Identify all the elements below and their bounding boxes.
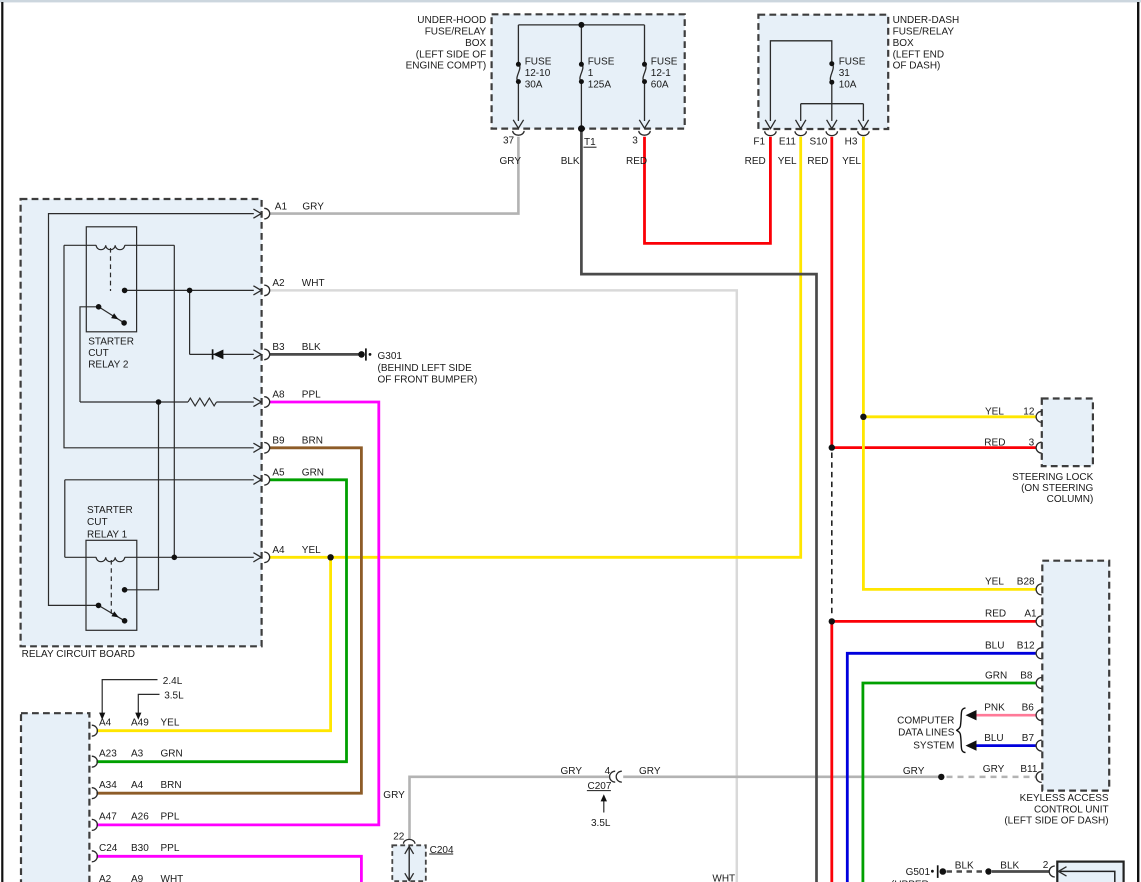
svg-text:A34: A34: [99, 780, 117, 791]
C204 arrow up: [405, 846, 414, 854]
svg-text:A47: A47: [99, 812, 117, 823]
pin B3 arrow: [253, 350, 261, 359]
svg-text:RED: RED: [745, 156, 766, 167]
wire bus drop to exit H3: [862, 104, 864, 121]
svg-text:31: 31: [839, 68, 851, 79]
svg-text:A3: A3: [131, 749, 144, 760]
wire resistor to A8 pin: [217, 401, 254, 403]
svg-text:(LEFT SIDE OF: (LEFT SIDE OF: [416, 49, 486, 60]
pin B9 arc: [264, 443, 270, 454]
svg-text:BOX: BOX: [893, 38, 914, 49]
svg-text:A2: A2: [272, 278, 285, 289]
wire A5 leg down to relay 1 coil: [64, 480, 66, 558]
wire fuse 1 to terminal T1: [580, 82, 582, 129]
pin 12 steering arc: [1036, 411, 1042, 422]
svg-text:A4: A4: [272, 545, 285, 556]
wire PPL A8 down to A47/A26: [96, 402, 378, 825]
svg-text:FUSE: FUSE: [651, 57, 678, 68]
brace computer data lines: [957, 708, 966, 753]
svg-text:BLU: BLU: [984, 733, 1003, 744]
svg-text:FUSE: FUSE: [525, 57, 552, 68]
svg-text:12-10: 12-10: [525, 68, 551, 79]
label steering lock: [1012, 472, 1093, 505]
pin 3 cavity arc: [639, 131, 650, 135]
svg-text:A2: A2: [99, 874, 112, 882]
fuse 1 end dots: [579, 62, 584, 67]
pin A5 arrow: [253, 475, 261, 484]
pin F1 cavity arc: [765, 131, 776, 135]
arrowhead computer data lines B6: [966, 710, 977, 720]
pin A1 arrow: [253, 209, 261, 218]
diode in B3 line: [212, 349, 214, 359]
relay 1 coil link dashed: [110, 560, 112, 617]
svg-text:A1: A1: [1024, 608, 1037, 619]
svg-text:2.4L: 2.4L: [163, 676, 183, 687]
relay 2 pivot dot: [96, 304, 102, 310]
wire YEL branch down to A4/A49 pin: [96, 557, 330, 730]
svg-text:UNDER-HOOD: UNDER-HOOD: [417, 15, 486, 26]
svg-text:F1: F1: [753, 136, 765, 147]
svg-text:WHT: WHT: [712, 873, 735, 882]
wire BLK dashed from G501: [947, 870, 986, 873]
svg-text:GRN: GRN: [161, 749, 183, 760]
svg-text:B28: B28: [1017, 577, 1035, 588]
svg-text:COLUMN): COLUMN): [1047, 494, 1094, 505]
svg-text:RELAY 1: RELAY 1: [87, 529, 128, 540]
wire RED S10 down to steering lock branch: [832, 137, 1036, 448]
svg-text:3.5L: 3.5L: [164, 691, 184, 702]
ground G501: [931, 870, 934, 873]
pin B12 arc: [1036, 648, 1042, 659]
svg-text:(ON STEERING: (ON STEERING: [1021, 483, 1093, 494]
pin B6 arc: [1036, 710, 1042, 721]
svg-text:PNK: PNK: [984, 702, 1005, 713]
pin A2 arrow: [253, 286, 261, 295]
svg-text:RED: RED: [807, 156, 828, 167]
wire bus drop to fuse 1: [580, 25, 582, 64]
svg-text:BLK: BLK: [1000, 860, 1019, 871]
pin C24/B30 arc: [92, 851, 98, 862]
svg-text:UNDER-DASH: UNDER-DASH: [893, 15, 960, 26]
steering lock box: [1042, 399, 1093, 467]
fuse 12-10 30A: [517, 64, 520, 81]
svg-text:FUSE: FUSE: [839, 57, 866, 68]
connector C204 box: [392, 845, 426, 881]
svg-text:OF DASH): OF DASH): [893, 61, 941, 72]
svg-text:4: 4: [605, 766, 611, 777]
wire C204 pass-through: [408, 846, 410, 880]
svg-text:T1: T1: [584, 137, 596, 148]
pin A34/A4 arc: [92, 788, 98, 799]
svg-text:GRN: GRN: [302, 468, 324, 479]
wire RED A1 row to keyless unit: [832, 620, 1036, 623]
wire A8 row left: [80, 401, 188, 403]
node A8 junction: [156, 399, 162, 405]
svg-text:A26: A26: [131, 812, 149, 823]
pin B7 arc: [1036, 740, 1042, 751]
svg-text:YEL: YEL: [302, 545, 321, 556]
wire relay 2 coil row: [64, 244, 96, 246]
relay 2 body: [86, 227, 136, 332]
keyless access control unit box: [1042, 561, 1109, 791]
svg-text:B9: B9: [272, 436, 285, 447]
pin A47/A26 arc: [92, 819, 98, 830]
fuse 12-10 end dots: [516, 62, 521, 67]
svg-text:A5: A5: [272, 468, 285, 479]
relay 2 coil link dashed: [110, 248, 112, 291]
svg-text:A4: A4: [131, 780, 144, 791]
bracket 3.5L: [138, 694, 159, 713]
node A4 coil junction: [172, 555, 178, 561]
svg-text:BLK: BLK: [955, 860, 974, 871]
svg-text:PPL: PPL: [302, 390, 321, 401]
svg-text:12: 12: [1023, 407, 1035, 418]
svg-text:CONTROL UNIT: CONTROL UNIT: [1034, 804, 1109, 815]
svg-text:2: 2: [1043, 860, 1049, 871]
relay circuit board box: [21, 199, 262, 646]
svg-text:SYSTEM: SYSTEM: [913, 740, 954, 751]
pin A4 arc: [264, 552, 269, 563]
label under-hood box: [406, 15, 487, 72]
under-hood fuse/relay box: [492, 14, 685, 128]
node BLK G501 junction: [985, 868, 991, 874]
junction dot under-hood bus: [578, 22, 584, 28]
pin H3 exit arrow: [858, 120, 868, 129]
svg-text:STARTER: STARTER: [88, 337, 134, 348]
wire PNK B6 stub: [976, 714, 1036, 717]
wire GRN A5 down to A23/A3: [96, 480, 346, 762]
pin E11 exit arrow: [796, 120, 806, 129]
pin 2 G501 arc: [1049, 866, 1055, 877]
svg-text:B3: B3: [272, 342, 285, 353]
switch arm relay 1: [99, 605, 125, 620]
node S10 red junction: [829, 444, 835, 450]
svg-text:125A: 125A: [588, 80, 612, 91]
pin B11 arc: [1036, 771, 1042, 782]
svg-text:FUSE/RELAY: FUSE/RELAY: [893, 27, 955, 38]
svg-text:PPL: PPL: [161, 843, 180, 854]
coil relay 1: [96, 557, 125, 561]
relay 1 contact dot: [122, 587, 128, 593]
pin A4/A49 arc: [92, 725, 98, 736]
fuse 31 end dots: [829, 61, 834, 66]
svg-text:1: 1: [588, 68, 594, 79]
ground G301: [358, 351, 365, 358]
arrow 3.5L to C207: [603, 800, 605, 813]
svg-text:S10: S10: [810, 136, 828, 147]
wire relay 2 coil right leg down to A4 node: [173, 245, 175, 557]
svg-text:YEL: YEL: [985, 577, 1004, 588]
pin H3 cavity arc: [858, 131, 869, 135]
wire relay 2 coil left leg to B9: [64, 245, 254, 447]
svg-text:G501: G501: [906, 867, 931, 878]
G501 destination box: [1057, 862, 1123, 882]
arrowhead computer data lines B7: [966, 740, 977, 750]
svg-text:WHT: WHT: [302, 278, 325, 289]
resistor in A8 line: [188, 398, 216, 406]
wire bus drop to fuse 12-10: [517, 25, 519, 64]
wire YEL branch to steering lock 12: [863, 415, 1035, 418]
fuse 12-1 end dots: [642, 62, 647, 67]
wire PPL C24/B30 across and down: [96, 856, 361, 882]
pin S10 exit arrow: [827, 120, 837, 129]
wire YEL E11 down to A4 row across to A4 pin: [270, 137, 801, 558]
svg-text:60A: 60A: [651, 80, 669, 91]
svg-text:RELAY CIRCUIT BOARD: RELAY CIRCUIT BOARD: [22, 649, 135, 660]
wire GRY C207 to junction: [623, 775, 941, 778]
arrowhead relay 1 arm: [111, 611, 119, 617]
svg-text:RED: RED: [626, 156, 647, 167]
wire fuse 12-1 to exit 3: [644, 82, 646, 121]
svg-text:DATA LINES: DATA LINES: [898, 727, 955, 738]
wire A5 row: [65, 479, 254, 481]
pin E11 cavity arc: [795, 131, 806, 135]
wire A2 node down to B3 row: [189, 290, 191, 354]
svg-text:C24: C24: [99, 843, 118, 854]
node A2-B3 junction: [187, 288, 193, 294]
pin B3 arc: [264, 349, 270, 360]
svg-text:YEL: YEL: [778, 156, 797, 167]
wire WHT A2 across and down: [270, 290, 737, 882]
terminal T1 dot: [578, 125, 585, 132]
svg-text:A49: A49: [131, 718, 149, 729]
WIRES: [517, 25, 864, 129]
svg-text:BLK: BLK: [302, 342, 321, 353]
pin 37 cavity arc: [513, 131, 524, 135]
svg-text:(LEFT SIDE OF DASH): (LEFT SIDE OF DASH): [1004, 816, 1108, 827]
bottom-left connector box: [21, 713, 89, 882]
svg-text:ENGINE COMPT): ENGINE COMPT): [406, 61, 487, 72]
svg-text:GRY: GRY: [383, 790, 405, 801]
svg-text:STEERING LOCK: STEERING LOCK: [1012, 472, 1093, 483]
wire RED fuse 12-1 to F1: [645, 137, 771, 244]
wire relay 2 pivot leg: [80, 307, 99, 402]
svg-text:RED: RED: [985, 608, 1006, 619]
label keyless access control unit: [1004, 793, 1109, 826]
wire under-dash F1 feed: [770, 41, 831, 121]
wire under-dash bus E11 H3: [801, 103, 864, 105]
svg-text:12-1: 12-1: [651, 68, 671, 79]
relay 1 pivot dot: [96, 603, 102, 609]
pin A2 arc: [264, 285, 270, 296]
wire BLU B7 stub: [976, 744, 1036, 747]
wire A1 row to relay 1 pivot: [49, 214, 254, 606]
svg-text:B6: B6: [1022, 702, 1035, 713]
pin A1 keyless arc: [1036, 616, 1042, 627]
svg-text:BLU: BLU: [985, 640, 1004, 651]
bracket 2.4L: [102, 680, 157, 714]
svg-text:10A: 10A: [839, 80, 857, 91]
svg-text:A4: A4: [99, 718, 112, 729]
wire relay 2 coil to vertical: [125, 244, 175, 246]
svg-text:(BEHIND LEFT SIDE: (BEHIND LEFT SIDE: [378, 363, 473, 374]
svg-text:B7: B7: [1022, 733, 1035, 744]
fuse 31 10A: [830, 64, 833, 82]
svg-text:RELAY 2: RELAY 2: [88, 360, 129, 371]
pin 3 steering arc: [1036, 442, 1042, 453]
wire GRN B8 across and down: [863, 683, 1036, 882]
svg-text:A23: A23: [99, 749, 117, 760]
pin A1 arc: [264, 208, 270, 219]
svg-text:BOX: BOX: [465, 38, 486, 49]
svg-text:RED: RED: [984, 438, 1005, 449]
svg-text:OF FRONT BUMPER): OF FRONT BUMPER): [378, 375, 478, 386]
C207 connector arcs: [610, 771, 622, 782]
pin F1 exit arrow: [765, 120, 775, 129]
wire GRY fuse 37 to A1: [270, 137, 519, 214]
svg-text:A8: A8: [272, 390, 285, 401]
pin A8 arc: [264, 397, 270, 408]
SYMBOLS: [513, 120, 869, 136]
wire GRY dashed to B11: [947, 776, 1036, 779]
svg-text:A9: A9: [131, 874, 144, 882]
arrow inside G501 box: [1058, 867, 1066, 876]
wire relay 1 coil row left: [65, 556, 96, 558]
relay 1 arm end dot: [122, 618, 128, 624]
svg-text:3: 3: [1029, 438, 1035, 449]
svg-text:GRY: GRY: [302, 201, 324, 212]
node gray B11 junction: [938, 774, 944, 780]
wire under-hood bus: [518, 24, 644, 26]
svg-text:GRY: GRY: [561, 766, 583, 777]
wire dashed link on S10 line: [831, 453, 833, 617]
svg-text:YEL: YEL: [985, 407, 1004, 418]
svg-text:GRY: GRY: [639, 766, 661, 777]
wire B3 row: [190, 353, 254, 355]
pin A5 arc: [264, 475, 270, 486]
svg-text:3: 3: [632, 136, 638, 147]
pin B8 arc: [1036, 678, 1042, 689]
svg-text:E11: E11: [779, 136, 796, 147]
pin 37 exit arrow: [513, 120, 523, 128]
wire BLK T1 down and across to bottom: [581, 129, 816, 882]
pin 3 exit arrow: [639, 120, 649, 128]
svg-text:GRN: GRN: [985, 670, 1007, 681]
label computer data lines system: [897, 715, 955, 751]
wire GRY C204 up to row: [410, 777, 610, 840]
svg-text:STARTER: STARTER: [87, 505, 133, 516]
relay 2 contact dot: [122, 288, 128, 294]
svg-text:CUT: CUT: [87, 517, 108, 528]
svg-text:GRY: GRY: [500, 156, 522, 167]
svg-text:(LEFT END: (LEFT END: [893, 49, 945, 60]
pin A8 arrow: [253, 397, 261, 406]
svg-text:PPL: PPL: [161, 812, 180, 823]
node H3 yellow junction: [860, 414, 866, 420]
wire RED continues to bottom: [830, 621, 833, 882]
pin S10 cavity arc: [826, 131, 837, 135]
svg-text:GRY: GRY: [903, 766, 925, 777]
relay 1 body: [86, 540, 137, 630]
wire BLK to pin 2: [992, 870, 1050, 873]
node red A1 junction: [829, 618, 835, 624]
pin A23/A3 arc: [92, 756, 98, 767]
svg-text:22: 22: [393, 831, 405, 842]
wire fuse 12-10 to exit 37: [517, 82, 519, 121]
svg-text:YEL: YEL: [161, 718, 180, 729]
wire bus drop to exit E11: [800, 104, 802, 121]
svg-text:FUSE: FUSE: [588, 57, 615, 68]
wire A8 node down to relay 1 contact: [125, 402, 159, 590]
svg-text:FUSE/RELAY: FUSE/RELAY: [425, 27, 487, 38]
svg-text:B12: B12: [1017, 640, 1035, 651]
svg-text:BRN: BRN: [161, 780, 182, 791]
pin B9 arrow: [253, 443, 261, 452]
svg-text:COMPUTER: COMPUTER: [897, 715, 954, 726]
fuse 12-1 60A: [643, 64, 646, 81]
switch arm relay 2: [99, 307, 125, 323]
svg-text:BRN: BRN: [302, 436, 323, 447]
wire inside G501 destination box: [1060, 871, 1115, 882]
wire fuse 31 to exit S10: [831, 82, 833, 121]
C204 arrow down: [405, 873, 414, 880]
wire relay 2 contact to A2 pin: [125, 289, 254, 291]
fuse 1 125A: [580, 64, 583, 81]
wire bus drop to fuse 12-1: [644, 25, 646, 64]
wire BLK B3 to G301: [270, 353, 359, 356]
wire relay 1 coil to A4 pin: [125, 556, 254, 558]
coil relay 2: [96, 245, 125, 249]
svg-text:A1: A1: [275, 201, 288, 212]
pin B28 arc: [1036, 584, 1042, 595]
svg-text:B11: B11: [1020, 764, 1037, 775]
svg-text:37: 37: [503, 136, 515, 147]
wire YEL H3 down to B28 row: [863, 137, 1035, 590]
svg-text:GRY: GRY: [983, 764, 1005, 775]
svg-text:30A: 30A: [525, 80, 543, 91]
C204 top cavity arc: [404, 839, 415, 843]
svg-text:KEYLESS ACCESS: KEYLESS ACCESS: [1020, 793, 1109, 804]
PAGE-FURNITURE: [0, 0, 1141, 2]
svg-text:H3: H3: [845, 136, 858, 147]
svg-text:B8: B8: [1020, 670, 1033, 681]
under-dash fuse/relay box: [758, 15, 888, 129]
wire BLU B12 across and down: [847, 653, 1035, 882]
svg-text:YEL: YEL: [842, 156, 861, 167]
arrowhead relay 2 arm: [111, 313, 118, 319]
svg-text:CUT: CUT: [88, 348, 109, 359]
wire BRN B9 down to A34/A4: [96, 448, 361, 793]
svg-text:G301: G301: [378, 351, 403, 362]
svg-text:BLK: BLK: [561, 156, 580, 167]
svg-text:3.5L: 3.5L: [591, 818, 611, 829]
relay 2 arm end dot: [121, 320, 127, 326]
svg-text:B30: B30: [131, 843, 149, 854]
node A4 yellow junction: [327, 554, 333, 560]
pin A4 arrow: [253, 553, 261, 562]
svg-text:WHT: WHT: [161, 874, 184, 882]
